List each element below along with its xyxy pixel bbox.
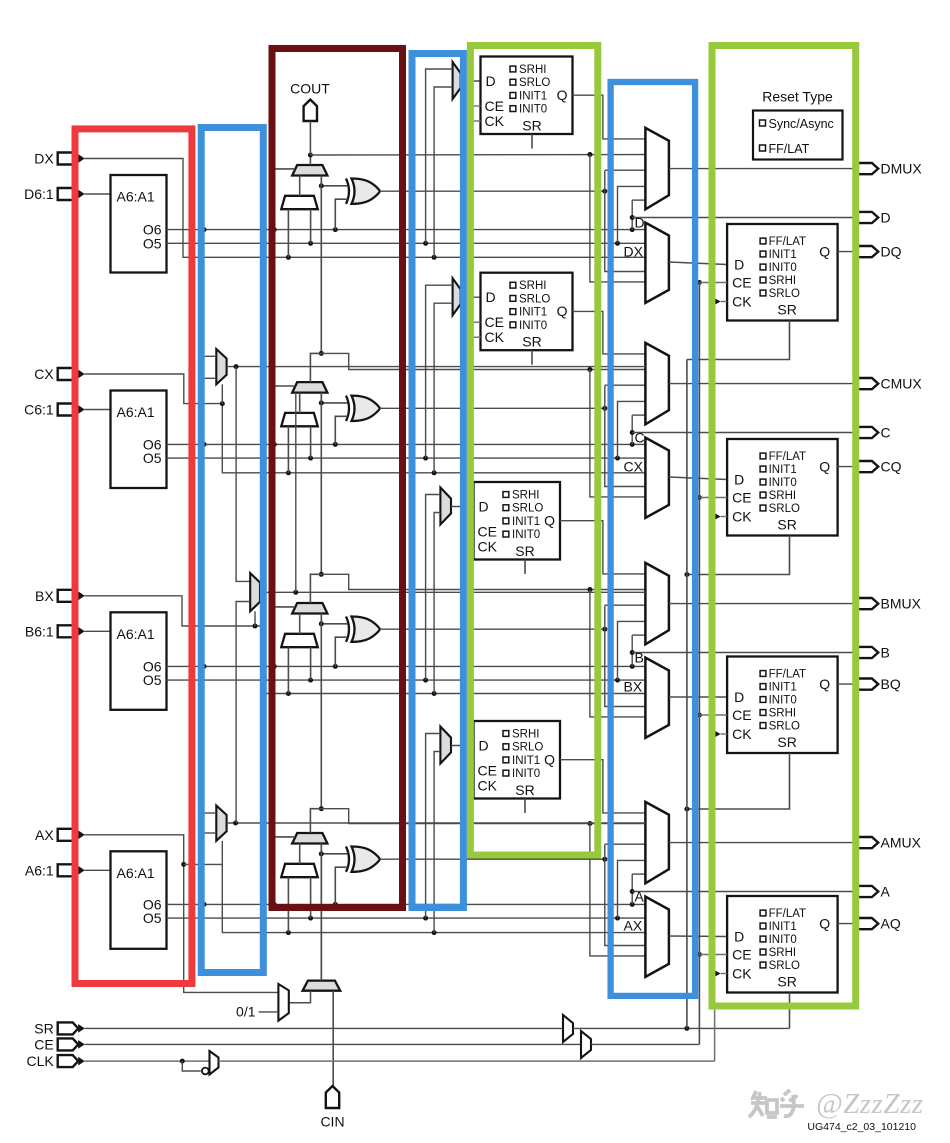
SR rail vertical <box>686 360 688 1029</box>
dots on O6 D <box>202 227 207 232</box>
input connector B6:1 <box>58 625 78 637</box>
FF SR stub C <box>531 350 533 365</box>
output connector BQ <box>858 679 878 690</box>
wire A output <box>632 891 858 893</box>
mux CYINIT select 0/1 <box>278 984 288 1021</box>
svg-text:INIT0: INIT0 <box>769 934 797 946</box>
wire C output <box>632 432 858 434</box>
svg-text:COUT: COUT <box>290 81 330 97</box>
wire O6 to out mux D <box>632 199 645 201</box>
svg-text:A6:A1: A6:A1 <box>117 865 155 881</box>
wire carry CO A <box>319 806 324 811</box>
carry DI mux B <box>281 634 318 647</box>
dot AX to carry DI <box>286 930 291 935</box>
wire SR branch AQ <box>789 993 791 1029</box>
svg-text:DX: DX <box>34 151 54 167</box>
wire CO to FF mux A <box>590 824 646 956</box>
wire BX to select mux B <box>434 513 440 694</box>
FF SR stub A <box>524 799 526 814</box>
wire CX to DI mux C <box>287 426 289 473</box>
carry XORCY B <box>352 617 381 642</box>
svg-text:Sync/Async: Sync/Async <box>769 117 834 131</box>
output mux DMUX <box>645 128 669 209</box>
svg-text:CK: CK <box>732 966 752 982</box>
wire F7AMUX select <box>221 841 223 865</box>
box output-mux column (blue) <box>611 82 696 996</box>
wire CX route <box>85 374 646 473</box>
dots on O5 A <box>308 916 313 921</box>
output connector A <box>858 886 878 897</box>
wire O6 A <box>167 903 646 905</box>
wire F7AMUX output <box>227 822 646 824</box>
svg-text:Reset Type: Reset Type <box>762 89 833 105</box>
wire XOR input O6 A <box>335 867 347 904</box>
wire BMUX output <box>669 603 858 605</box>
wire select mux to FF D A <box>451 745 474 747</box>
wire O6 select to MUXCY A <box>274 837 295 905</box>
wire BX to DI mux B <box>287 647 289 693</box>
svg-text:INIT0: INIT0 <box>519 320 547 332</box>
dot DX to carry DI <box>286 255 291 260</box>
watermark zhihu <box>749 1090 804 1117</box>
svg-text:Q: Q <box>819 244 830 260</box>
wire CYINIT output <box>320 853 322 981</box>
svg-text:C: C <box>635 430 645 446</box>
svg-text:BMUX: BMUX <box>881 596 922 612</box>
CLK inverter bubble <box>202 1068 209 1075</box>
wire XOR sum B <box>380 628 605 630</box>
FF CE stub A <box>461 770 474 772</box>
mux F7AMUX <box>216 806 226 841</box>
wire DX to select mux D <box>434 87 453 257</box>
input connector SR <box>58 1022 78 1034</box>
svg-text:DX: DX <box>624 244 644 260</box>
svg-text:SRLO: SRLO <box>519 293 550 305</box>
wire 0/1 to mux <box>259 1011 279 1013</box>
wire O5 A <box>167 917 646 919</box>
svg-text:D: D <box>734 689 744 705</box>
svg-text:A6:1: A6:1 <box>25 862 54 878</box>
svg-text:CE: CE <box>732 707 751 723</box>
wire CE <box>85 1043 582 1045</box>
dot CO branch D <box>587 152 592 157</box>
output mux BMUX <box>645 563 669 644</box>
input connector BX <box>58 590 78 602</box>
FF input mux DQ <box>645 223 669 303</box>
FF CE stub B <box>461 531 474 533</box>
output connector D <box>858 212 878 223</box>
flip-flop/latch BQ <box>727 657 838 754</box>
wires F7AMUX inputs <box>203 812 216 814</box>
dot CO branch A <box>587 821 592 826</box>
wire CQ output <box>838 466 858 468</box>
svg-text:INIT1: INIT1 <box>519 90 547 102</box>
connector CIN <box>326 1086 339 1108</box>
wire B output <box>632 652 858 654</box>
FF SR stub D <box>531 134 533 149</box>
legend Sync/Async <box>760 120 766 126</box>
svg-text:Q: Q <box>544 752 555 768</box>
wire O5 to out mux C <box>618 401 646 458</box>
wire O5 to DI mux B <box>310 647 312 680</box>
wire O5 D <box>167 242 646 244</box>
wire AQ output <box>838 923 858 925</box>
svg-text:FF/LAT: FF/LAT <box>769 451 806 463</box>
wire BQ output <box>838 683 858 685</box>
svg-text:CE: CE <box>732 947 751 963</box>
svg-text:A6:A1: A6:A1 <box>117 404 155 420</box>
output mux CMUX <box>645 343 669 424</box>
svg-text:SRHI: SRHI <box>512 490 539 502</box>
input connector DX <box>58 153 78 165</box>
svg-text:INIT1: INIT1 <box>512 516 540 528</box>
wire CE branch BQ <box>697 713 702 718</box>
input connector A6:1 <box>58 864 78 876</box>
wire CO to FF mux B <box>590 590 646 717</box>
legend box <box>753 111 843 160</box>
svg-text:DQ: DQ <box>881 244 902 260</box>
mux CLK inline <box>210 1051 219 1075</box>
svg-text:CIN: CIN <box>320 1114 344 1130</box>
wire O6 select to MUXCY C <box>274 386 295 444</box>
dot B out <box>630 650 635 655</box>
mux F7BMUX <box>216 349 226 384</box>
wire AX route <box>85 835 279 993</box>
box FF-select column (blue) <box>412 54 463 908</box>
mux CE inline <box>581 1031 591 1058</box>
FF CE stub D <box>468 105 481 107</box>
wire CE branch AQ <box>697 952 702 957</box>
wire CLK <box>85 1060 210 1062</box>
svg-text:CK: CK <box>485 113 505 129</box>
mux SR inline <box>563 1015 573 1042</box>
wire XOR input CIN A <box>321 844 347 854</box>
dot BX to carry DI <box>286 691 291 696</box>
flip-flop A5FF <box>474 721 561 799</box>
svg-text:D: D <box>479 499 489 515</box>
wire A6:1 to LUT <box>85 869 111 871</box>
wires F7BMUX inputs <box>203 355 216 357</box>
wire F8MUX select <box>254 611 256 626</box>
svg-text:SRLO: SRLO <box>519 77 550 89</box>
wire O5 C <box>167 457 646 459</box>
output connector C <box>858 427 878 438</box>
wire AX to select mux A <box>434 752 440 933</box>
wire carry chain below B <box>320 614 322 809</box>
wire O6 to out mux B <box>632 634 645 636</box>
svg-text:INIT1: INIT1 <box>769 464 797 476</box>
output mux AMUX <box>645 802 669 883</box>
clock arrow AQ <box>713 969 721 978</box>
svg-text:D: D <box>734 929 744 945</box>
svg-text:D: D <box>881 210 891 226</box>
wire CO to FF mux C <box>590 370 646 497</box>
CE rail vertical <box>698 283 700 1045</box>
svg-text:O5: O5 <box>143 235 162 251</box>
input connector D6:1 <box>58 188 78 200</box>
svg-text:BQ: BQ <box>881 676 901 692</box>
wire O6 to out mux C <box>632 414 645 416</box>
FF input mux BQ <box>645 658 669 738</box>
svg-text:Q: Q <box>557 303 568 319</box>
svg-text:SRLO: SRLO <box>769 288 800 300</box>
svg-text:Q: Q <box>544 513 555 529</box>
svg-text:SR: SR <box>515 543 534 559</box>
FF CE stub C <box>468 321 481 323</box>
wire O5 to DI mux C <box>310 426 312 458</box>
wire XOR input O6 B <box>335 637 347 666</box>
wire CYINIT from CIN <box>332 991 334 1086</box>
dot AX to input mux <box>432 930 437 935</box>
svg-text:A6:A1: A6:A1 <box>117 189 155 205</box>
wire DX route <box>85 159 646 258</box>
wire XOR input CIN C <box>321 393 347 403</box>
svg-text:SR: SR <box>515 782 534 798</box>
wire carry chain below D <box>320 176 322 354</box>
wire MUXCY to DI mux A <box>299 844 301 864</box>
FF input mux AQ <box>645 897 669 977</box>
svg-text:DMUX: DMUX <box>881 161 923 177</box>
output connector AMUX <box>858 837 878 848</box>
carry chain MUXCY B <box>292 603 327 614</box>
dots on O6 C <box>202 442 207 447</box>
dot A out <box>630 889 635 894</box>
carry XORCY A <box>352 847 381 872</box>
wire carry chain below C <box>320 393 322 575</box>
FF CK stub A <box>461 785 474 787</box>
wire O6 to out mux A <box>632 873 645 875</box>
svg-text:D: D <box>486 73 496 89</box>
svg-text:CX: CX <box>624 459 644 475</box>
wire FF Q D <box>573 95 646 139</box>
wire O6 C <box>167 443 646 445</box>
svg-text:INIT1: INIT1 <box>769 921 797 933</box>
svg-text:INIT1: INIT1 <box>769 682 797 694</box>
wire XOR input O6 D <box>335 199 347 229</box>
input connector CX <box>58 368 78 380</box>
dot BX to input mux <box>432 691 437 696</box>
svg-text:SRHI: SRHI <box>512 729 539 741</box>
svg-text:SRLO: SRLO <box>769 503 800 515</box>
svg-text:CK: CK <box>732 294 752 310</box>
wire FF Q C <box>573 311 646 354</box>
wire B6:1 to LUT <box>85 630 111 632</box>
wire O5 to select mux D <box>426 69 453 243</box>
wire BX route <box>85 596 646 694</box>
svg-text:FF/LAT: FF/LAT <box>769 142 810 156</box>
dot C out <box>630 430 635 435</box>
svg-text:D: D <box>486 289 496 305</box>
svg-text:D: D <box>734 257 744 273</box>
svg-text:C6:1: C6:1 <box>24 402 54 418</box>
dots on O5 B <box>308 678 313 683</box>
wire FF mux to FF/LAT D C <box>669 477 727 480</box>
svg-text:CK: CK <box>732 509 752 525</box>
svg-text:FF/LAT: FF/LAT <box>769 236 806 248</box>
svg-text:C: C <box>881 425 891 441</box>
wire carry to F8 junction <box>295 393 297 593</box>
box output column (green) <box>712 46 856 1007</box>
carry init mux CYINIT <box>303 981 341 991</box>
svg-text:D: D <box>734 472 744 488</box>
svg-text:CE: CE <box>485 314 504 330</box>
svg-text:INIT0: INIT0 <box>512 529 540 541</box>
wire FF mux to FF/LAT D D <box>669 262 727 265</box>
svg-text:CE: CE <box>478 524 497 540</box>
FF input mux CQ <box>645 438 669 518</box>
svg-text:O5: O5 <box>143 450 162 466</box>
wire AX to DI mux A <box>287 877 289 932</box>
svg-text:AX: AX <box>624 918 643 934</box>
FF input select mux D <box>453 62 461 99</box>
wire O5 to out mux A <box>618 860 646 918</box>
svg-text:CK: CK <box>478 778 498 794</box>
svg-text:AQ: AQ <box>881 916 901 932</box>
svg-text:Q: Q <box>819 916 830 932</box>
wire XOR input CIN B <box>321 614 347 624</box>
wire SR branch CQ <box>687 536 790 575</box>
box wide-mux column (blue) <box>201 128 263 973</box>
svg-text:INIT1: INIT1 <box>769 249 797 261</box>
wire O6 select to MUXCY D <box>274 169 295 230</box>
svg-text:O5: O5 <box>143 672 162 688</box>
FF CK stub B <box>461 546 474 548</box>
output connector AQ <box>858 918 878 929</box>
wire O5 to DI mux D <box>310 209 312 243</box>
wire CX to select mux C <box>434 303 453 473</box>
wire XOR input O6 C <box>335 416 347 444</box>
LUT A A6:A1 <box>111 851 167 949</box>
svg-text:BX: BX <box>624 679 643 695</box>
dots on O5 D <box>308 241 313 246</box>
dot D out <box>630 215 635 220</box>
flip-flop/latch DQ <box>727 224 838 321</box>
svg-text:D: D <box>479 738 489 754</box>
output connector DQ <box>858 246 878 257</box>
wire MUXCY to DI mux B <box>299 614 301 634</box>
flip-flop C5FF <box>481 273 573 351</box>
svg-text:CMUX: CMUX <box>881 376 923 392</box>
svg-text:D: D <box>635 215 645 231</box>
wire FF mux to FF/LAT D B <box>669 696 727 698</box>
svg-text:AMUX: AMUX <box>881 835 922 851</box>
input connector CE <box>58 1038 78 1050</box>
wire XOR input CIN D <box>321 176 347 186</box>
svg-text:SRLO: SRLO <box>769 960 800 972</box>
wire F8MUX output <box>260 591 645 593</box>
wire F7BMUX output <box>227 366 646 368</box>
wire XOR sum A <box>380 858 605 860</box>
svg-text:INIT1: INIT1 <box>519 307 547 319</box>
LUT B A6:A1 <box>111 612 167 710</box>
wire carry chain below A <box>320 844 322 981</box>
svg-text:SR: SR <box>34 1020 53 1036</box>
wire SR branch DQ <box>687 321 790 360</box>
wire O5 to select mux C <box>426 285 453 458</box>
FF CK stub C <box>468 336 481 338</box>
carry chain MUXCY D <box>292 165 327 176</box>
svg-text:SR: SR <box>777 974 796 990</box>
svg-text:INIT0: INIT0 <box>769 262 797 274</box>
FF input select mux C <box>453 278 461 315</box>
svg-text:SRHI: SRHI <box>769 947 796 959</box>
clock arrow CQ <box>713 512 721 521</box>
input connector AX <box>58 829 78 841</box>
LUT C A6:A1 <box>111 391 167 489</box>
carry chain MUXCY A <box>292 833 327 844</box>
svg-text:INIT0: INIT0 <box>769 695 797 707</box>
wire CYINIT from 0/1 mux <box>289 991 311 1003</box>
svg-text:CK: CK <box>478 539 498 555</box>
LUT D A6:A1 <box>111 175 167 273</box>
svg-text:INIT1: INIT1 <box>512 755 540 767</box>
wire F7BMUX select <box>221 384 223 403</box>
wire O6 select to MUXCY B <box>274 607 295 667</box>
svg-text:CX: CX <box>34 366 54 382</box>
wire D output <box>632 217 858 219</box>
wire CO to FF mux D <box>590 155 646 282</box>
wire CMUX output <box>669 383 858 385</box>
wire O5 to out mux B <box>618 621 646 680</box>
dots on O6 A <box>202 902 207 907</box>
flip-flop B5FF <box>474 482 561 560</box>
wire COUT to carry <box>309 121 311 155</box>
wire carry CO D <box>309 155 311 165</box>
wire SR to rail <box>573 1027 790 1029</box>
output connector B <box>858 647 878 658</box>
wire CE branch CQ <box>697 495 702 500</box>
wire SR branch BQ <box>687 753 790 809</box>
svg-text:SRLO: SRLO <box>512 503 543 515</box>
wire O5 to out mux D <box>618 186 646 243</box>
wire MUXCY to DI mux C <box>299 393 301 413</box>
svg-text:BX: BX <box>35 588 54 604</box>
wire O6 B <box>167 665 646 667</box>
svg-text:INIT0: INIT0 <box>769 477 797 489</box>
svg-text:SR: SR <box>522 118 541 134</box>
wire XOR sum C <box>380 407 605 409</box>
wire F7AMUX to F8MUX <box>236 602 250 824</box>
dot DX to input mux <box>432 255 437 260</box>
wire MUXCY to DI mux D <box>299 176 301 196</box>
dot CO branch C <box>587 367 592 372</box>
wire DQ output <box>838 251 858 253</box>
wire CLK to rail <box>219 1060 715 1062</box>
FF input select mux A <box>440 727 451 764</box>
output connector CQ <box>858 461 878 472</box>
output connector DMUX <box>858 163 878 174</box>
svg-text:SR: SR <box>777 517 796 533</box>
wire O5 to DI mux A <box>310 877 312 918</box>
svg-text:B6:1: B6:1 <box>25 623 54 639</box>
mux F8MUX <box>250 573 260 611</box>
FF input select mux B <box>440 488 451 525</box>
svg-text:FF/LAT: FF/LAT <box>769 669 806 681</box>
dot CX to input mux <box>432 470 437 475</box>
svg-text:CE: CE <box>34 1036 53 1052</box>
carry XORCY D <box>352 179 381 204</box>
wire CE to rail <box>591 1043 699 1045</box>
box carry column (dark red) <box>272 49 403 908</box>
svg-text:CE: CE <box>732 275 751 291</box>
box FF column (green) <box>470 46 597 856</box>
svg-text:Q: Q <box>819 459 830 475</box>
svg-text:INIT0: INIT0 <box>519 104 547 116</box>
dots on O6 B <box>202 664 207 669</box>
FF SR stub B <box>524 560 526 575</box>
svg-text:A6:A1: A6:A1 <box>117 626 155 642</box>
svg-text:CE: CE <box>732 490 751 506</box>
